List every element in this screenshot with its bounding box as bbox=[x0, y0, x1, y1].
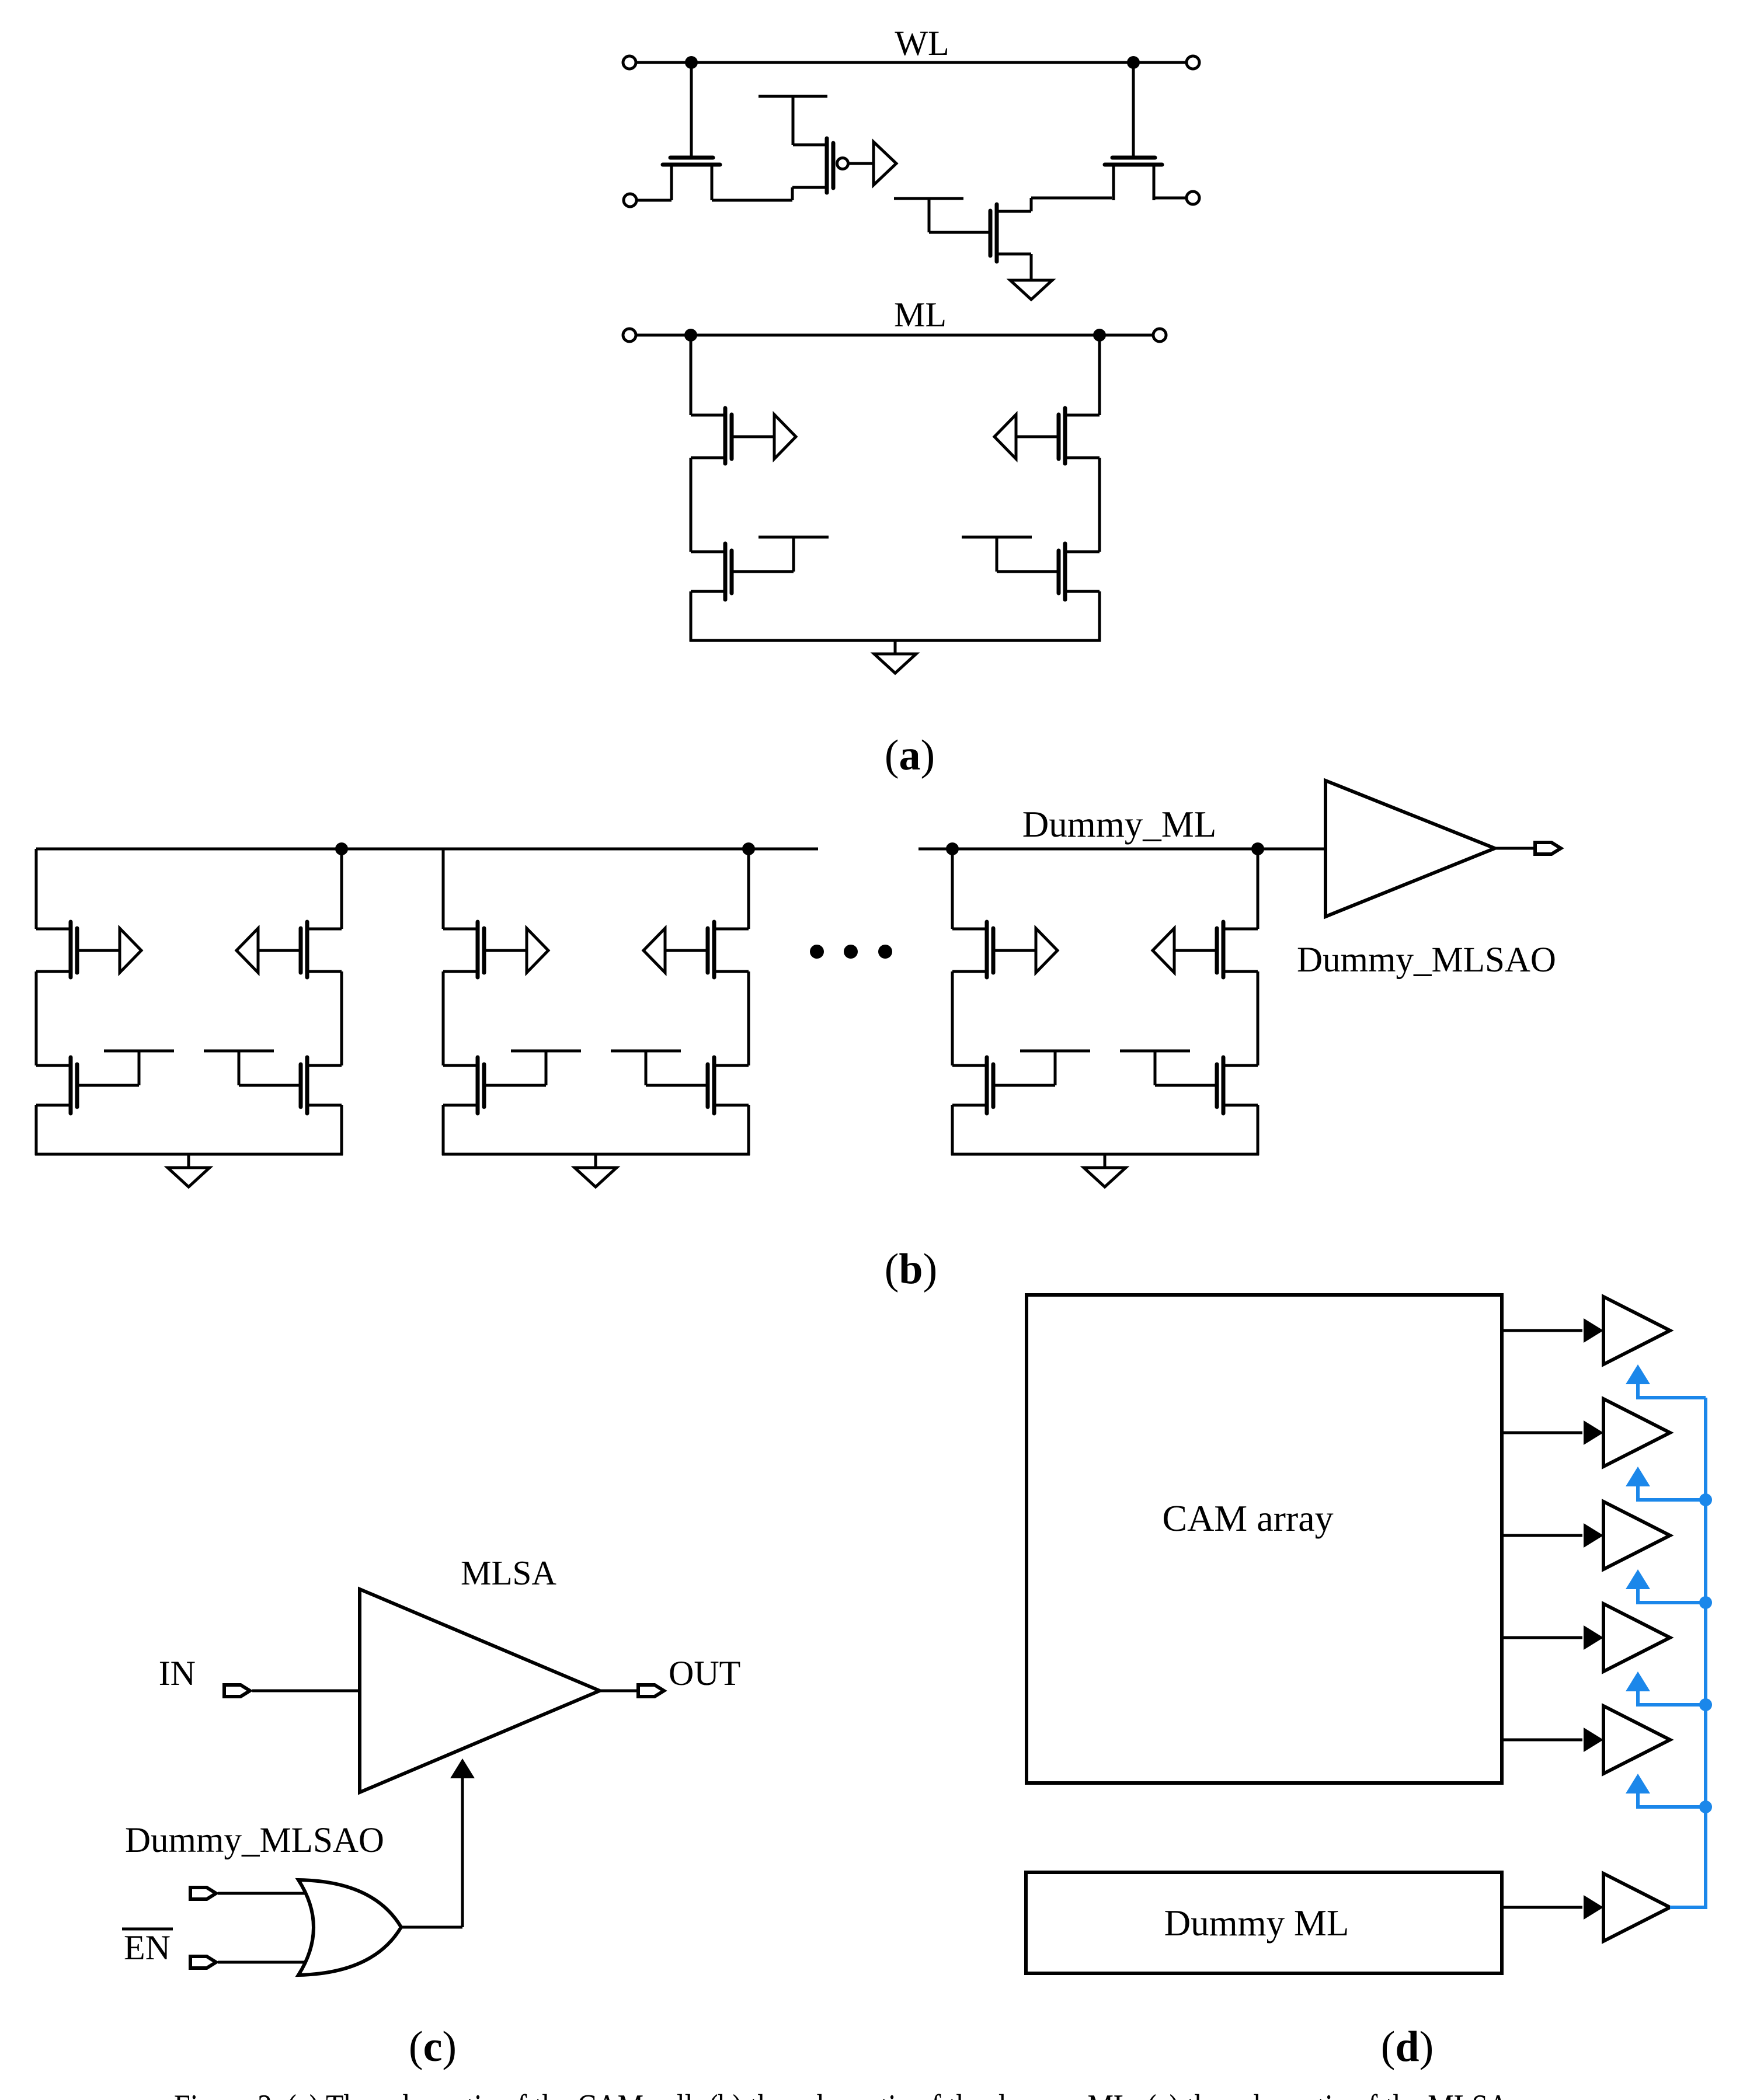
svg-text:ML: ML bbox=[894, 295, 947, 334]
svg-text:CAM array: CAM array bbox=[1162, 1497, 1333, 1539]
svg-text:Dummy_MLSAO: Dummy_MLSAO bbox=[125, 1821, 384, 1860]
svg-text:(d): (d) bbox=[1381, 2023, 1434, 2071]
svg-text:(c): (c) bbox=[409, 2023, 457, 2071]
svg-text:OUT: OUT bbox=[669, 1654, 740, 1692]
svg-text:Dummy_ML: Dummy_ML bbox=[1022, 804, 1217, 845]
svg-text:(a): (a) bbox=[885, 732, 935, 779]
svg-text:MLSA: MLSA bbox=[461, 1554, 556, 1592]
svg-text:Dummy_MLSAO: Dummy_MLSAO bbox=[1297, 941, 1556, 980]
svg-text:WL: WL bbox=[895, 24, 949, 62]
svg-text:EN: EN bbox=[124, 1928, 171, 1967]
svg-text:IN: IN bbox=[159, 1654, 196, 1692]
svg-text:Dummy ML: Dummy ML bbox=[1164, 1903, 1349, 1944]
svg-text:Figure 3. (a) The schematic of: Figure 3. (a) The schematic of the CAM c… bbox=[174, 2087, 1517, 2100]
svg-text:(b): (b) bbox=[885, 1245, 937, 1293]
